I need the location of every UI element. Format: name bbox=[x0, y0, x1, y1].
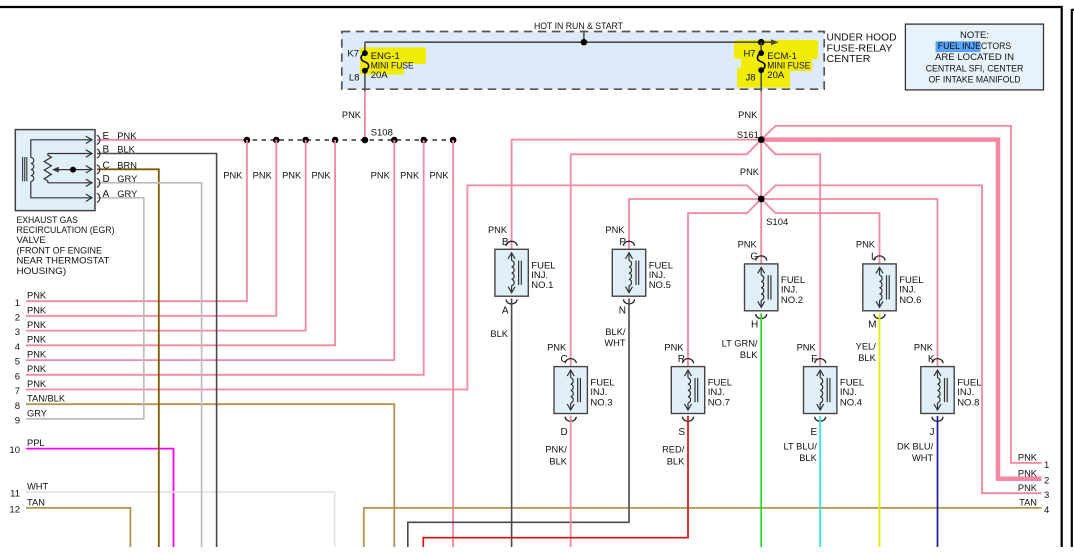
svg-text:PNK/: PNK/ bbox=[545, 445, 567, 455]
svg-text:PNK: PNK bbox=[738, 110, 758, 120]
svg-text:TAN/BLK: TAN/BLK bbox=[27, 394, 66, 404]
svg-text:J8: J8 bbox=[746, 73, 756, 84]
svg-text:PNK: PNK bbox=[27, 291, 47, 301]
svg-text:PNK: PNK bbox=[429, 170, 449, 180]
svg-text:LT BLU/: LT BLU/ bbox=[784, 441, 818, 451]
svg-text:PNK: PNK bbox=[914, 342, 934, 352]
svg-text:J: J bbox=[930, 427, 935, 438]
svg-text:E: E bbox=[811, 427, 818, 438]
svg-text:NOTE:: NOTE: bbox=[960, 30, 989, 41]
svg-text:D: D bbox=[560, 427, 567, 438]
svg-text:H7: H7 bbox=[743, 49, 755, 60]
svg-text:PNK: PNK bbox=[488, 225, 508, 235]
svg-text:9: 9 bbox=[15, 416, 20, 427]
svg-text:WHT: WHT bbox=[912, 453, 933, 463]
svg-text:DK BLU/: DK BLU/ bbox=[897, 441, 934, 451]
svg-text:PNK: PNK bbox=[311, 170, 331, 180]
svg-text:FUEL INJECTORS: FUEL INJECTORS bbox=[938, 41, 1011, 52]
svg-text:PNK: PNK bbox=[27, 379, 47, 389]
svg-text:HOT IN RUN & START: HOT IN RUN & START bbox=[534, 21, 623, 32]
svg-text:PNK: PNK bbox=[27, 335, 47, 345]
svg-text:10: 10 bbox=[9, 445, 20, 456]
svg-text:S161: S161 bbox=[737, 130, 759, 141]
svg-text:PNK: PNK bbox=[1018, 483, 1038, 493]
svg-text:6: 6 bbox=[15, 371, 20, 382]
svg-text:BLK: BLK bbox=[549, 456, 567, 466]
svg-text:PNK: PNK bbox=[117, 131, 137, 141]
svg-text:PNK: PNK bbox=[1018, 453, 1038, 463]
svg-text:P: P bbox=[619, 237, 626, 248]
svg-text:BLK: BLK bbox=[667, 456, 685, 466]
svg-text:CENTRAL SFI, CENTER: CENTRAL SFI, CENTER bbox=[926, 63, 1024, 74]
svg-text:NO.8: NO.8 bbox=[957, 398, 979, 409]
svg-text:B: B bbox=[502, 237, 509, 248]
svg-text:GRY: GRY bbox=[27, 408, 47, 418]
svg-text:HOUSING): HOUSING) bbox=[17, 266, 67, 277]
svg-text:12: 12 bbox=[9, 505, 20, 516]
svg-text:GRY: GRY bbox=[117, 174, 137, 184]
svg-text:FUSE-RELAY: FUSE-RELAY bbox=[827, 43, 893, 54]
svg-text:NO.4: NO.4 bbox=[840, 398, 862, 409]
svg-text:NO.7: NO.7 bbox=[708, 398, 730, 409]
svg-text:M: M bbox=[868, 320, 876, 331]
svg-text:UNDER HOOD: UNDER HOOD bbox=[827, 33, 897, 44]
svg-text:INJ.: INJ. bbox=[957, 387, 974, 398]
svg-text:INJ.: INJ. bbox=[781, 284, 798, 295]
svg-text:2: 2 bbox=[1044, 476, 1049, 487]
svg-text:S104: S104 bbox=[766, 217, 788, 228]
svg-text:PNK: PNK bbox=[547, 342, 567, 352]
svg-text:RED/: RED/ bbox=[662, 445, 685, 455]
svg-text:A: A bbox=[103, 189, 110, 200]
svg-text:C: C bbox=[103, 160, 110, 171]
svg-text:BLK/: BLK/ bbox=[605, 327, 626, 337]
svg-text:E: E bbox=[103, 131, 110, 142]
svg-text:BLK: BLK bbox=[799, 453, 817, 463]
svg-text:PNK: PNK bbox=[253, 170, 273, 180]
svg-text:TAN: TAN bbox=[27, 497, 45, 507]
svg-text:PNK: PNK bbox=[27, 364, 47, 374]
svg-text:PNK: PNK bbox=[664, 342, 684, 352]
svg-text:BLK: BLK bbox=[858, 353, 876, 363]
svg-text:PPL: PPL bbox=[27, 438, 45, 448]
svg-text:GRY: GRY bbox=[117, 189, 137, 199]
svg-text:F: F bbox=[811, 354, 817, 365]
svg-text:NO.5: NO.5 bbox=[649, 280, 671, 291]
svg-text:20A: 20A bbox=[767, 70, 785, 81]
svg-text:PNK: PNK bbox=[797, 342, 817, 352]
svg-text:PNK: PNK bbox=[371, 170, 391, 180]
svg-text:A: A bbox=[502, 305, 509, 316]
svg-text:B: B bbox=[103, 145, 110, 156]
svg-text:1: 1 bbox=[1044, 460, 1049, 471]
svg-text:PNK: PNK bbox=[27, 305, 47, 315]
svg-text:LT GRN/: LT GRN/ bbox=[722, 338, 758, 348]
svg-text:8: 8 bbox=[15, 401, 20, 412]
svg-text:3: 3 bbox=[1044, 490, 1049, 501]
svg-text:N: N bbox=[619, 305, 626, 316]
svg-text:20A: 20A bbox=[371, 70, 389, 81]
svg-text:PNK: PNK bbox=[223, 170, 243, 180]
svg-text:WHT: WHT bbox=[27, 481, 48, 491]
svg-text:H: H bbox=[751, 320, 758, 331]
svg-text:BLK: BLK bbox=[740, 350, 758, 360]
svg-text:NO.1: NO.1 bbox=[531, 280, 553, 291]
svg-text:C: C bbox=[560, 354, 567, 365]
svg-text:BLK: BLK bbox=[490, 329, 508, 339]
svg-text:R: R bbox=[678, 354, 685, 365]
svg-text:PNK: PNK bbox=[400, 170, 420, 180]
svg-text:7: 7 bbox=[15, 386, 20, 397]
svg-text:S: S bbox=[678, 427, 685, 438]
svg-text:1: 1 bbox=[15, 298, 20, 309]
svg-text:4: 4 bbox=[1044, 505, 1049, 516]
svg-text:PNK: PNK bbox=[740, 167, 760, 177]
svg-text:INJ.: INJ. bbox=[649, 270, 666, 281]
svg-text:WHT: WHT bbox=[604, 338, 625, 348]
svg-text:2: 2 bbox=[15, 313, 20, 324]
svg-text:YEL/: YEL/ bbox=[856, 341, 877, 351]
svg-text:PNK: PNK bbox=[1018, 469, 1038, 479]
svg-text:BRN: BRN bbox=[117, 160, 137, 170]
svg-text:CENTER: CENTER bbox=[827, 54, 871, 65]
svg-text:PNK: PNK bbox=[342, 110, 362, 120]
svg-text:PNK: PNK bbox=[856, 240, 876, 250]
svg-text:INJ.: INJ. bbox=[899, 284, 916, 295]
svg-text:INJ.: INJ. bbox=[531, 270, 548, 281]
svg-text:K: K bbox=[928, 354, 935, 365]
svg-text:ARE LOCATED IN: ARE LOCATED IN bbox=[935, 52, 1014, 63]
svg-text:BLK: BLK bbox=[117, 145, 135, 155]
svg-text:PNK: PNK bbox=[605, 225, 625, 235]
svg-text:S108: S108 bbox=[371, 128, 393, 139]
svg-text:L8: L8 bbox=[349, 73, 360, 84]
svg-text:INJ.: INJ. bbox=[840, 387, 857, 398]
svg-text:TAN: TAN bbox=[1019, 498, 1037, 508]
svg-text:OF INTAKE MANIFOLD: OF INTAKE MANIFOLD bbox=[928, 74, 1020, 85]
svg-text:NO.6: NO.6 bbox=[899, 295, 921, 306]
svg-text:PNK: PNK bbox=[738, 240, 758, 250]
svg-text:5: 5 bbox=[15, 357, 20, 368]
svg-text:L: L bbox=[871, 251, 877, 262]
svg-text:NO.2: NO.2 bbox=[781, 295, 803, 306]
svg-text:4: 4 bbox=[15, 342, 20, 353]
svg-text:NO.3: NO.3 bbox=[590, 398, 612, 409]
svg-text:PNK: PNK bbox=[27, 320, 47, 330]
svg-text:K7: K7 bbox=[347, 49, 359, 60]
svg-text:PNK: PNK bbox=[282, 170, 302, 180]
svg-text:PNK: PNK bbox=[27, 350, 47, 360]
svg-text:D: D bbox=[103, 174, 110, 185]
svg-text:INJ.: INJ. bbox=[708, 387, 725, 398]
svg-text:3: 3 bbox=[15, 327, 20, 338]
svg-text:G: G bbox=[750, 251, 758, 262]
svg-text:11: 11 bbox=[10, 489, 20, 500]
svg-text:INJ.: INJ. bbox=[590, 387, 607, 398]
